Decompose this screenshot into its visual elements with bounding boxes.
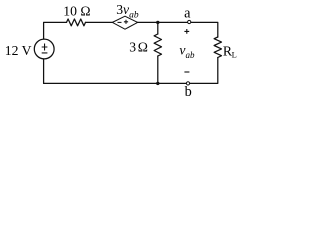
resistor RL zigzag [214, 37, 221, 58]
wire top-left corner to 10-ohm resistor [44, 22, 67, 39]
plus-minus symbol in source [42, 44, 48, 53]
wire dependent source to top-right corner [138, 22, 218, 37]
dependent source diamond 3vab [112, 16, 137, 29]
minus sign in diamond [118, 21, 122, 23]
svg-text:b: b [185, 84, 192, 98]
node b terminal circle [186, 82, 189, 85]
svg-text:3: 3 [129, 40, 136, 55]
plus sign above vab [184, 29, 189, 34]
svg-text:10 Ω: 10 Ω [63, 4, 90, 19]
plus sign in diamond [124, 20, 128, 24]
wire resistor to dependent source [86, 21, 113, 23]
node a terminal circle [188, 20, 191, 23]
wire RL to bottom-right corner [44, 58, 218, 84]
resistor R 10 ohm [67, 19, 86, 26]
resistor 3 ohm zigzag [154, 34, 161, 56]
minus sign below vab [184, 71, 189, 73]
junction dot bottom [156, 82, 159, 85]
svg-text:a: a [184, 6, 191, 22]
junction dot top [156, 21, 159, 24]
svg-text:Ω: Ω [138, 40, 148, 55]
svg-text:L: L [232, 49, 237, 59]
wire 3-ohm branch top [157, 22, 159, 34]
wire bottom-left corner up to source [43, 59, 45, 84]
voltage source 12V circle [34, 39, 54, 59]
svg-text:12 V: 12 V [5, 43, 32, 58]
wire 3-ohm branch bottom [157, 56, 159, 83]
